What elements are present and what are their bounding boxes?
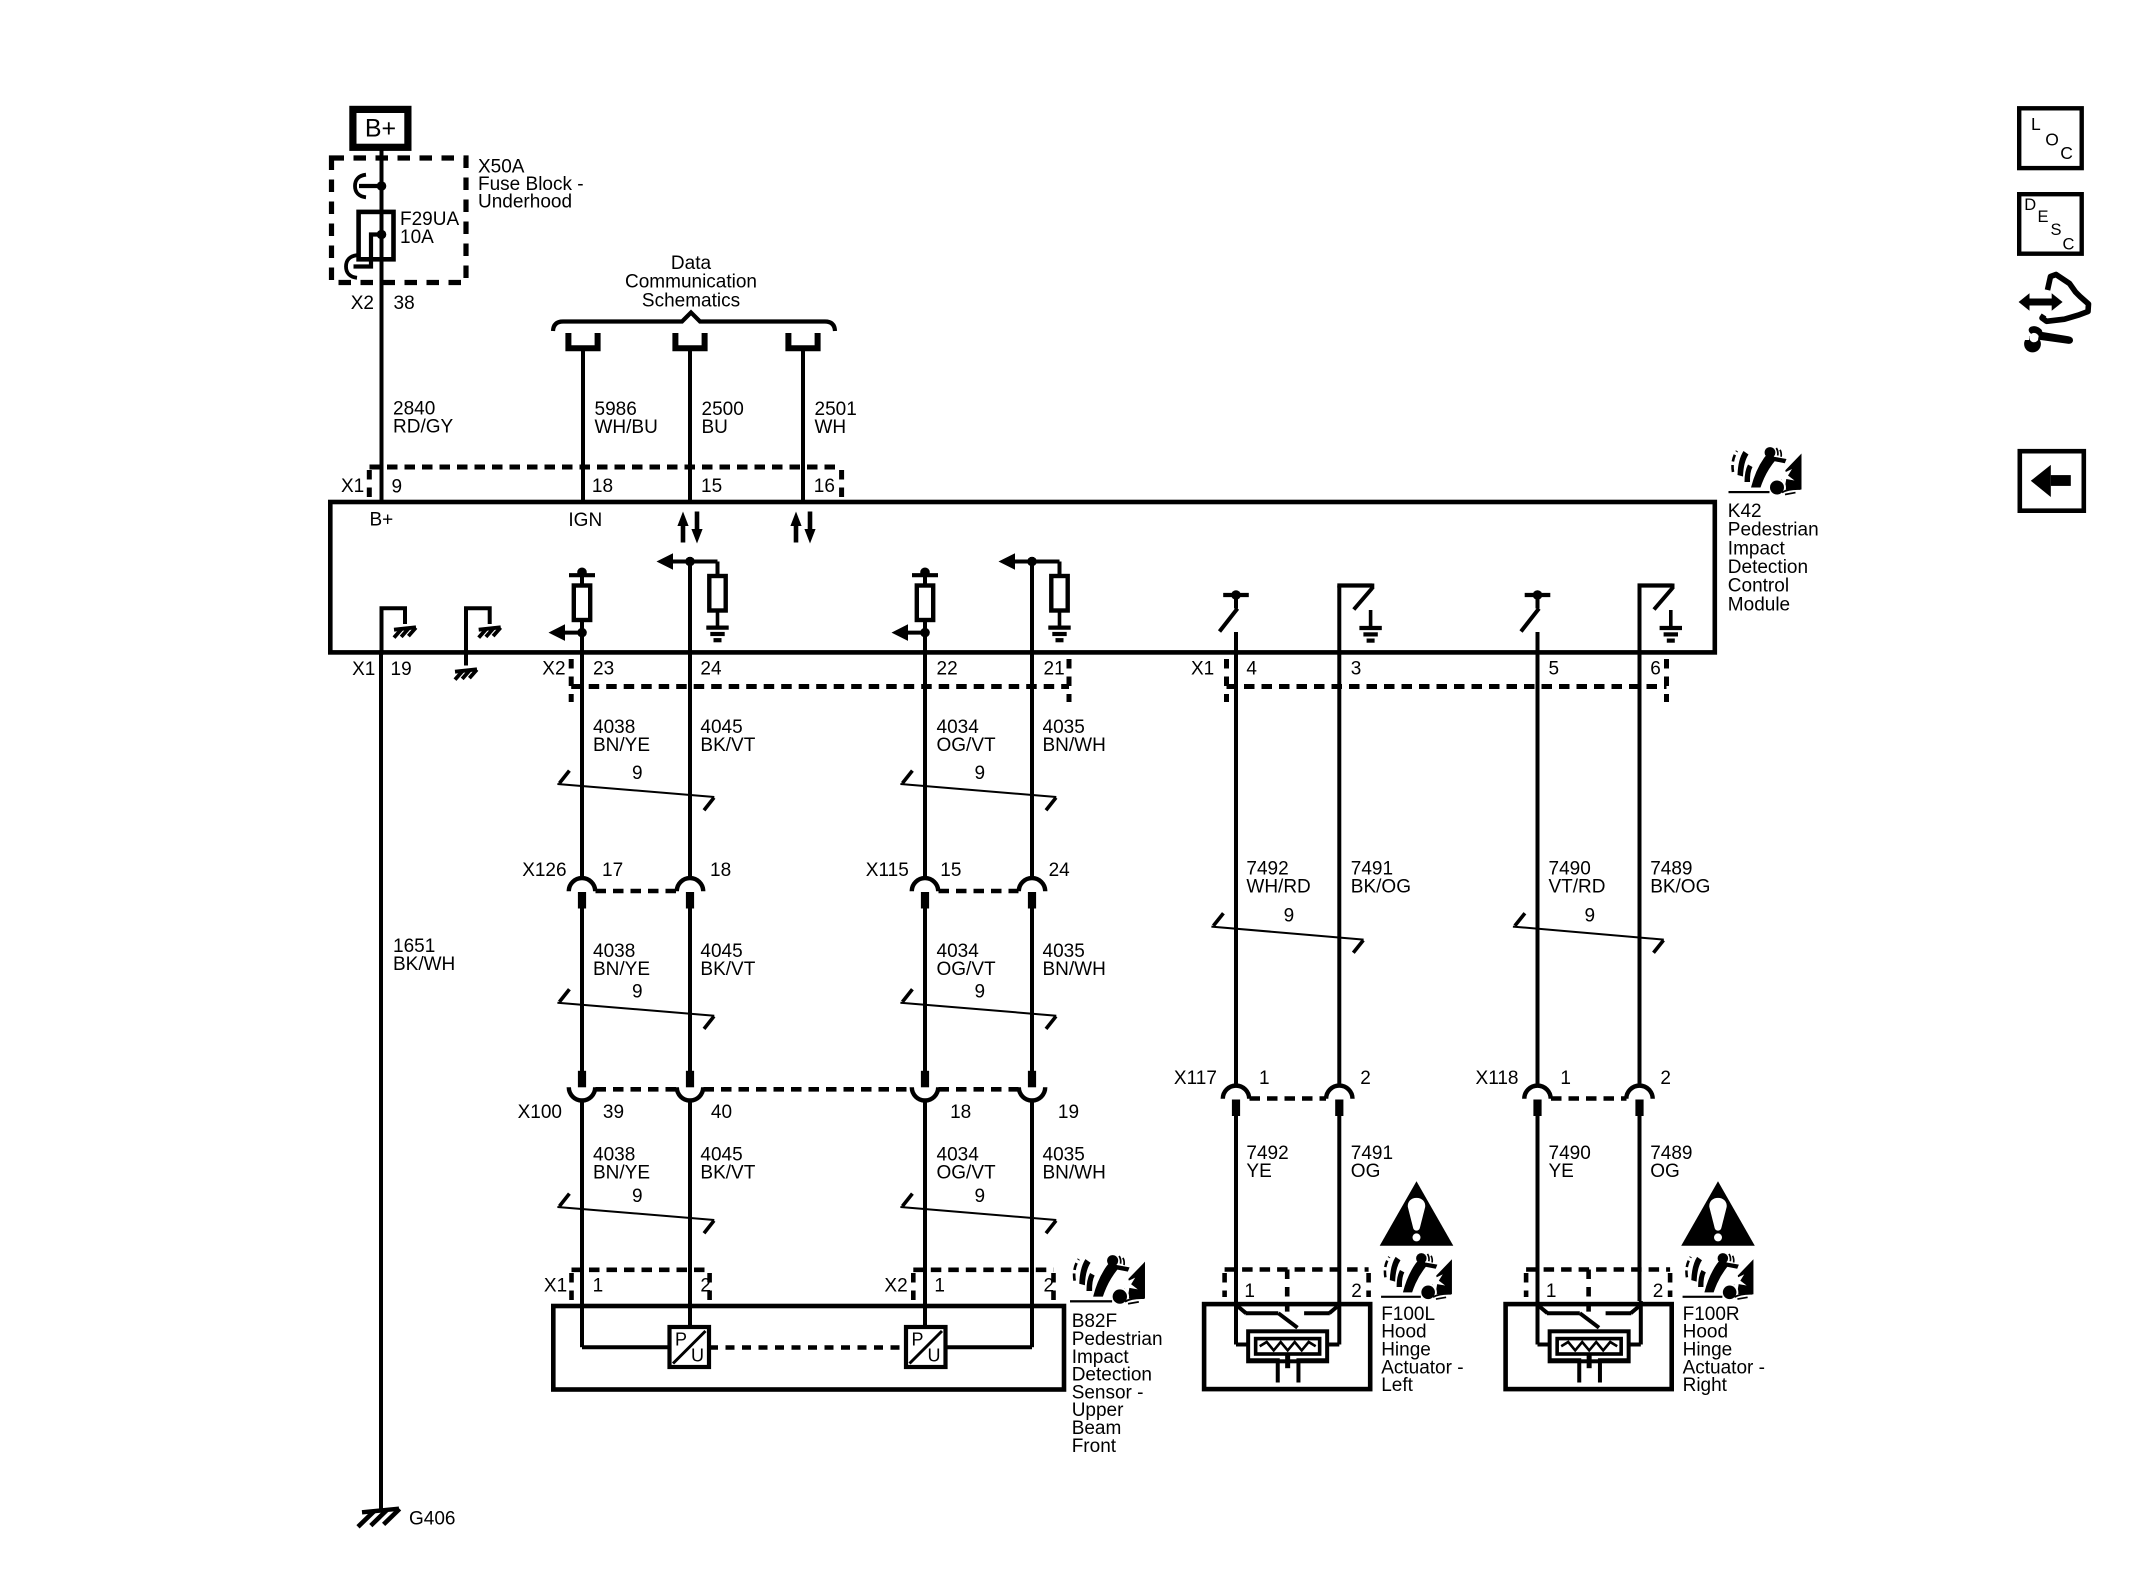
svg-text:2: 2	[1351, 1281, 1362, 1302]
svg-text:WH/BU: WH/BU	[595, 417, 658, 438]
svg-text:18: 18	[592, 476, 613, 497]
svg-text:Module: Module	[1728, 594, 1790, 615]
svg-text:3: 3	[1351, 658, 1362, 679]
svg-text:X1: X1	[1191, 658, 1214, 679]
svg-text:39: 39	[603, 1102, 624, 1123]
svg-text:B+: B+	[370, 509, 394, 530]
svg-text:O: O	[2045, 130, 2059, 150]
svg-text:BN/WH: BN/WH	[1043, 735, 1106, 756]
svg-text:9: 9	[975, 982, 986, 1003]
svg-text:19: 19	[391, 659, 412, 680]
svg-text:9: 9	[632, 1186, 643, 1207]
svg-text:1: 1	[934, 1276, 945, 1297]
svg-text:9: 9	[392, 476, 403, 497]
svg-text:4: 4	[1246, 658, 1257, 679]
svg-text:D: D	[2024, 196, 2036, 214]
svg-text:18: 18	[950, 1102, 971, 1123]
svg-text:S: S	[2051, 221, 2062, 239]
svg-text:9: 9	[1585, 906, 1596, 927]
svg-text:2: 2	[700, 1276, 711, 1297]
svg-text:9: 9	[975, 1186, 986, 1207]
svg-text:1: 1	[1259, 1068, 1270, 1089]
svg-text:X115: X115	[866, 860, 909, 881]
svg-text:G406: G406	[409, 1508, 455, 1529]
svg-text:Underhood: Underhood	[478, 192, 572, 213]
svg-text:X126: X126	[522, 860, 566, 881]
svg-text:X2: X2	[542, 658, 565, 679]
svg-text:19: 19	[1058, 1102, 1079, 1123]
svg-text:OG: OG	[1351, 1161, 1381, 1182]
svg-text:YE: YE	[1246, 1161, 1271, 1182]
svg-text:BN/YE: BN/YE	[593, 1162, 650, 1183]
svg-text:BK/VT: BK/VT	[700, 959, 755, 980]
svg-text:15: 15	[701, 476, 722, 497]
svg-text:Front: Front	[1072, 1436, 1117, 1457]
svg-text:X1: X1	[544, 1276, 567, 1297]
svg-text:1: 1	[1560, 1068, 1571, 1089]
svg-text:X1: X1	[341, 476, 364, 497]
svg-text:BU: BU	[702, 417, 728, 438]
svg-text:VT/RD: VT/RD	[1549, 876, 1606, 897]
svg-text:9: 9	[975, 763, 986, 784]
svg-text:22: 22	[937, 658, 958, 679]
svg-text:C: C	[2060, 143, 2073, 163]
svg-text:X1: X1	[352, 659, 375, 680]
svg-text:16: 16	[814, 476, 835, 497]
svg-text:U: U	[928, 1346, 941, 1366]
svg-text:5: 5	[1549, 658, 1560, 679]
svg-text:2: 2	[1360, 1068, 1371, 1089]
svg-text:24: 24	[700, 658, 722, 679]
svg-text:B+: B+	[365, 115, 396, 143]
svg-text:24: 24	[1049, 860, 1071, 881]
svg-text:P: P	[912, 1329, 924, 1349]
svg-text:WH: WH	[815, 417, 847, 438]
svg-text:17: 17	[602, 860, 623, 881]
svg-text:X100: X100	[518, 1102, 562, 1123]
svg-text:OG/VT: OG/VT	[937, 1162, 997, 1183]
svg-text:9: 9	[632, 982, 643, 1003]
svg-text:U: U	[691, 1346, 704, 1366]
svg-text:X2: X2	[884, 1276, 907, 1297]
svg-text:BK/OG: BK/OG	[1650, 876, 1710, 897]
svg-text:1: 1	[1546, 1281, 1557, 1302]
svg-text:WH/RD: WH/RD	[1246, 876, 1310, 897]
svg-text:Schematics: Schematics	[642, 290, 740, 311]
svg-text:X118: X118	[1476, 1068, 1519, 1089]
svg-text:YE: YE	[1549, 1161, 1574, 1182]
svg-text:1: 1	[593, 1276, 604, 1297]
svg-text:21: 21	[1044, 658, 1065, 679]
svg-text:1: 1	[1244, 1281, 1255, 1302]
svg-text:Left: Left	[1381, 1375, 1413, 1396]
svg-text:IGN: IGN	[568, 510, 602, 531]
svg-text:BN/YE: BN/YE	[593, 959, 650, 980]
svg-text:6: 6	[1650, 658, 1661, 679]
svg-text:L: L	[2031, 114, 2041, 134]
svg-text:BK/OG: BK/OG	[1351, 876, 1411, 897]
svg-text:23: 23	[593, 658, 614, 679]
svg-text:10A: 10A	[400, 227, 434, 248]
svg-text:OG/VT: OG/VT	[937, 959, 997, 980]
svg-text:BN/YE: BN/YE	[593, 735, 650, 756]
svg-text:2: 2	[1660, 1068, 1671, 1089]
svg-text:X117: X117	[1174, 1068, 1217, 1089]
svg-text:BK/WH: BK/WH	[393, 954, 455, 975]
svg-text:RD/GY: RD/GY	[393, 416, 454, 437]
svg-text:BN/WH: BN/WH	[1043, 959, 1106, 980]
svg-text:BK/VT: BK/VT	[700, 735, 755, 756]
svg-text:9: 9	[1284, 906, 1295, 927]
svg-text:Right: Right	[1683, 1375, 1728, 1396]
svg-text:E: E	[2038, 208, 2049, 226]
svg-text:40: 40	[711, 1102, 732, 1123]
svg-text:38: 38	[394, 293, 415, 314]
svg-text:9: 9	[632, 763, 643, 784]
svg-text:OG/VT: OG/VT	[937, 735, 997, 756]
svg-text:2: 2	[1653, 1281, 1664, 1302]
svg-text:OG: OG	[1650, 1161, 1680, 1182]
svg-text:P: P	[675, 1329, 687, 1349]
svg-text:2: 2	[1044, 1276, 1055, 1297]
svg-text:X2: X2	[351, 293, 374, 314]
svg-text:BN/WH: BN/WH	[1043, 1162, 1106, 1183]
svg-text:15: 15	[940, 860, 961, 881]
svg-text:BK/VT: BK/VT	[700, 1162, 755, 1183]
svg-text:18: 18	[710, 860, 731, 881]
svg-text:C: C	[2063, 235, 2075, 253]
